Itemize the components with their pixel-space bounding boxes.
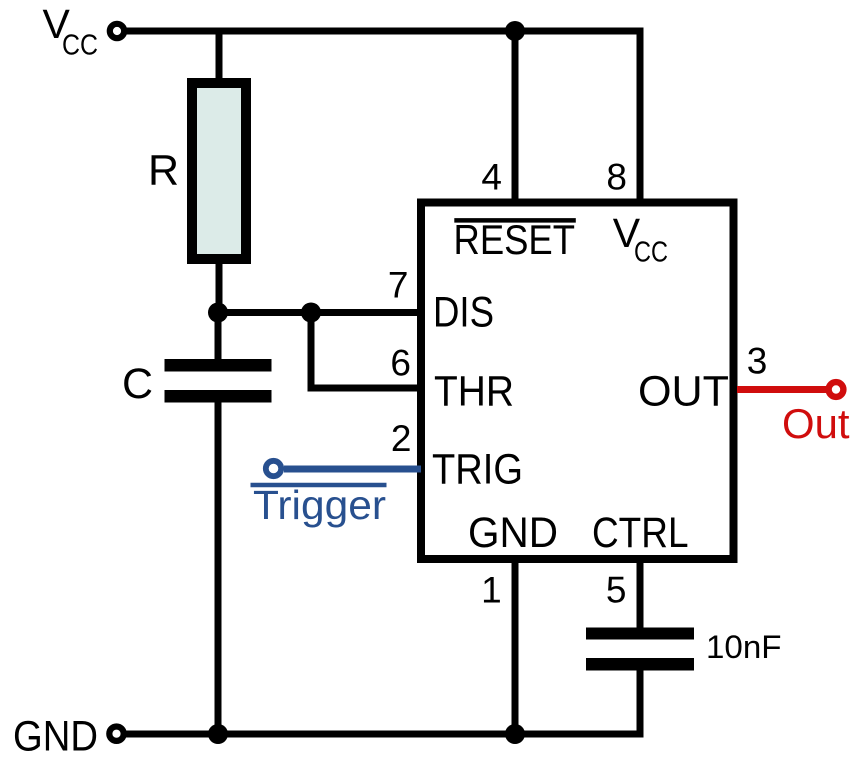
svg-text:TRIG: TRIG	[432, 446, 523, 494]
svg-text:7: 7	[388, 265, 409, 306]
svg-text:GND: GND	[468, 509, 558, 557]
svg-text:4: 4	[481, 156, 502, 197]
svg-text:5: 5	[606, 570, 627, 611]
svg-text:1: 1	[481, 570, 502, 611]
svg-text:Out: Out	[782, 400, 850, 447]
svg-text:CTRL: CTRL	[592, 509, 689, 557]
svg-text:RESET: RESET	[454, 216, 576, 263]
svg-text:R: R	[148, 147, 179, 195]
svg-text:3: 3	[747, 341, 768, 382]
svg-text:GND: GND	[13, 713, 98, 761]
svg-text:2: 2	[391, 418, 412, 459]
svg-text:THR: THR	[434, 367, 514, 415]
svg-text:CC: CC	[62, 29, 98, 61]
svg-text:6: 6	[390, 343, 411, 384]
svg-text:8: 8	[606, 156, 627, 197]
svg-text:10nF: 10nF	[706, 629, 782, 665]
svg-text:DIS: DIS	[433, 289, 494, 337]
svg-text:Trigger: Trigger	[253, 482, 386, 528]
svg-text:OUT: OUT	[638, 367, 729, 415]
svg-text:CC: CC	[634, 237, 668, 269]
svg-text:C: C	[122, 360, 153, 408]
